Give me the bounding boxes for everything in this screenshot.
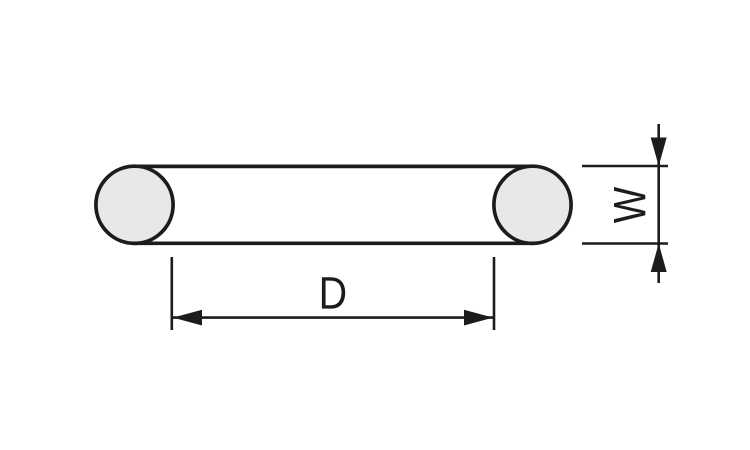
wire bottom tick line of dimension W [582, 242, 668, 245]
node label D [322, 277, 345, 308]
node right cross-section circle [494, 166, 571, 243]
wire right extension line of dimension D [493, 257, 496, 330]
node top arrowhead of W [651, 138, 667, 167]
wire top tick line of dimension W [582, 165, 668, 168]
node label W [614, 187, 645, 223]
wire left extension line of dimension D [171, 257, 174, 330]
wire vertical dimension line W [657, 124, 660, 283]
node bottom arrowhead of W [651, 244, 667, 273]
wire top tangent line of O-ring body [135, 165, 533, 169]
node left arrowhead of D [173, 310, 202, 326]
wire dimension line D [173, 316, 493, 319]
node right arrowhead of D [464, 310, 493, 326]
node left cross-section circle [96, 166, 173, 243]
wire bottom tangent line of O-ring body [135, 241, 533, 245]
